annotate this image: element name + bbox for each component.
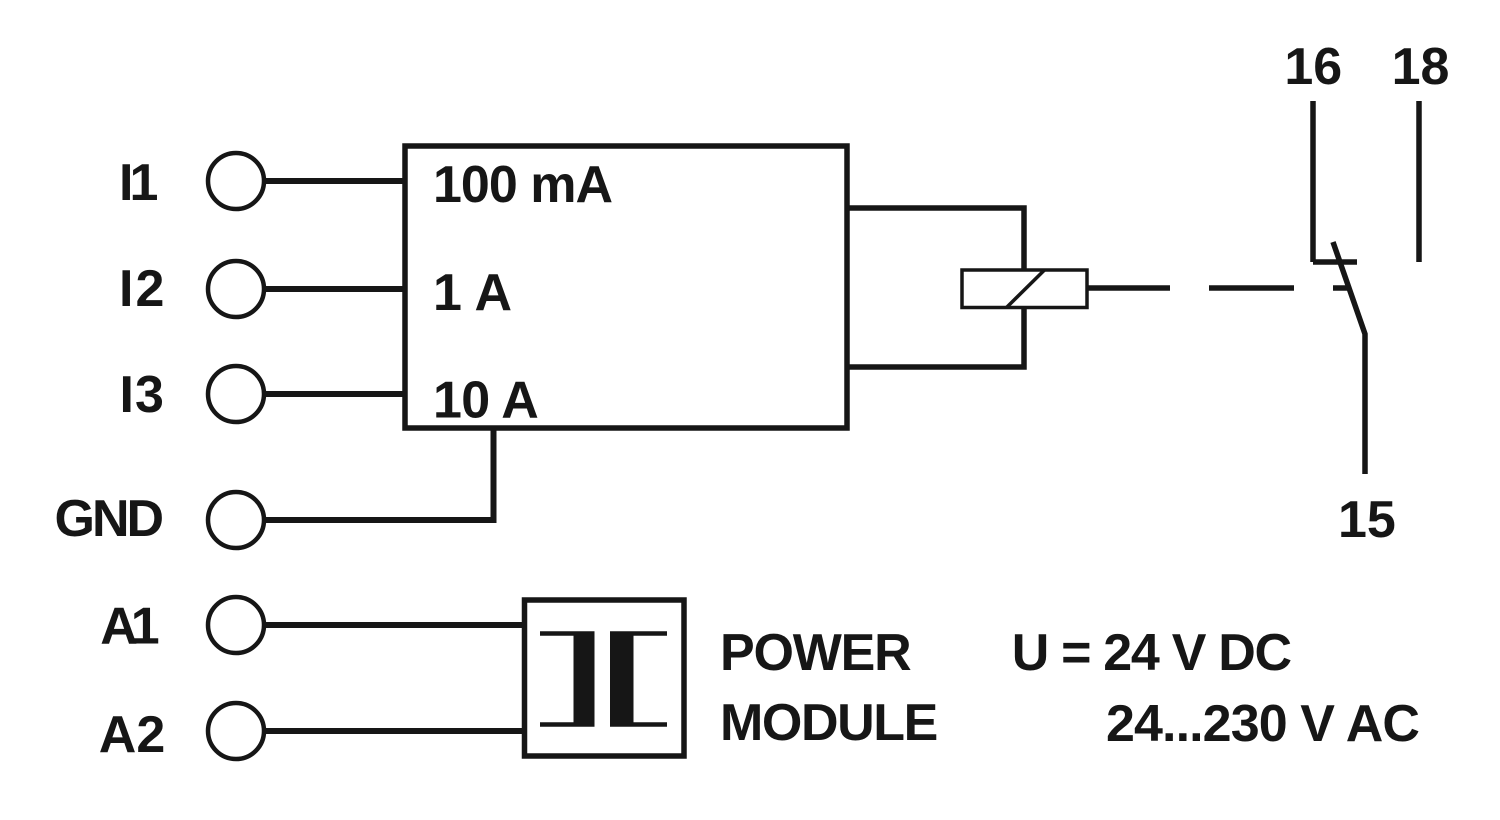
- switch blade: [1333, 242, 1365, 474]
- wire A1 to power module: [264, 622, 527, 628]
- svg-text:A2: A2: [99, 706, 165, 764]
- wire I1 to module: [264, 178, 407, 184]
- svg-text:I3: I3: [120, 366, 165, 424]
- wire I3 to module: [264, 391, 407, 397]
- wire GND to module bottom: [264, 426, 494, 521]
- wire I2 to module: [264, 286, 407, 292]
- terminal circle A1: [208, 597, 264, 653]
- wire relay coil loop: [847, 208, 1024, 367]
- wire A2 to power module: [264, 728, 527, 734]
- terminal circle GND: [208, 492, 264, 548]
- svg-text:16: 16: [1284, 38, 1342, 96]
- transformer secondary winding: [610, 632, 667, 726]
- power module box: [525, 600, 685, 756]
- terminal circle I2: [208, 261, 264, 317]
- svg-text:15: 15: [1338, 491, 1396, 549]
- terminal 18 lead: [1416, 101, 1422, 262]
- svg-text:GND: GND: [55, 490, 163, 548]
- relay coil K1: [962, 270, 1087, 308]
- terminal circle I1: [208, 153, 264, 209]
- svg-text:1 A: 1 A: [433, 264, 512, 322]
- transformer primary winding: [540, 632, 595, 726]
- measuring module box: [405, 146, 847, 428]
- svg-text:18: 18: [1392, 38, 1450, 96]
- fixed contact tick: [1313, 259, 1357, 265]
- svg-text:POWER: POWER: [720, 624, 911, 682]
- wire coil output: [1087, 285, 1170, 291]
- svg-text:100 mA: 100 mA: [433, 156, 612, 214]
- svg-text:24...230 V AC: 24...230 V AC: [1106, 695, 1419, 753]
- terminal circle I3: [208, 366, 264, 422]
- svg-text:A1: A1: [100, 598, 159, 656]
- svg-text:I2: I2: [119, 260, 166, 318]
- svg-text:I1: I1: [119, 154, 157, 212]
- terminal circle A2: [208, 703, 264, 759]
- actuator tick at blade: [1333, 285, 1349, 291]
- svg-text:U = 24 V DC: U = 24 V DC: [1012, 624, 1292, 682]
- terminal 16 lead: [1310, 101, 1316, 262]
- svg-text:10 A: 10 A: [433, 372, 538, 430]
- dashed actuator link: [1209, 285, 1294, 291]
- svg-text:MODULE: MODULE: [720, 694, 937, 752]
